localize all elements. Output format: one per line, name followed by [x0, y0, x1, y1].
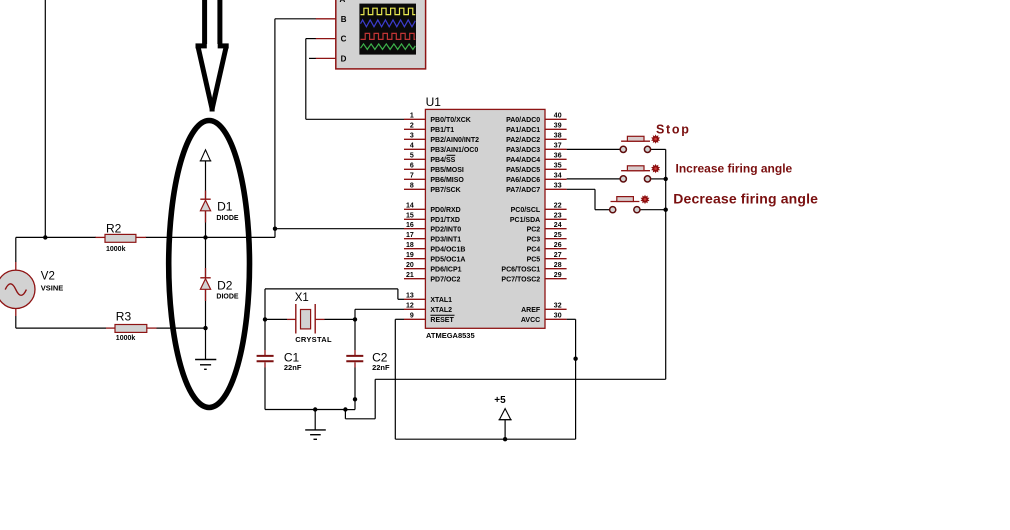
diode D1 anode pin [205, 211, 207, 223]
junction node on AVCC drop [573, 357, 577, 361]
svg-text:PB2/AIN0/INT2: PB2/AIN0/INT2 [430, 137, 479, 144]
crystal X1 right pin [315, 318, 324, 320]
svg-text:CRYSTAL: CRYSTAL [295, 335, 332, 344]
annotation arrow pointing to diodes [196, 0, 229, 112]
svg-text:3: 3 [410, 133, 414, 140]
svg-text:27: 27 [554, 252, 562, 259]
U1 pin 12 XTAL2 [404, 308, 425, 310]
wire buttons-to-ground link horizontal [345, 418, 375, 420]
svg-text:PD1/TXD: PD1/TXD [430, 217, 460, 224]
resistor R3 body [115, 325, 147, 333]
svg-text:38: 38 [554, 133, 562, 140]
resistor R3 right pin [147, 327, 157, 329]
wire left vertical below C1 to ground row [264, 368, 266, 410]
svg-text:19: 19 [406, 252, 414, 259]
svg-text:PB5/MOSI: PB5/MOSI [430, 167, 464, 174]
U1 pin 21 PD7/OC2 [404, 278, 425, 280]
U1 pin 29 PC7/TOSC2 [545, 278, 567, 280]
svg-text:PC5: PC5 [527, 256, 541, 263]
wire V2 to R3 [16, 327, 106, 329]
button Stop cap [627, 136, 644, 141]
svg-text:32: 32 [554, 303, 562, 310]
svg-text:40: 40 [554, 113, 562, 120]
svg-text:PB1/T1: PB1/T1 [430, 127, 454, 134]
svg-text:20: 20 [406, 262, 414, 269]
svg-text:21: 21 [406, 272, 414, 279]
wire buttons-to-ground link up [374, 379, 376, 419]
wire R2 to diode chain and right [146, 236, 276, 238]
svg-text:ATMEGA8535: ATMEGA8535 [426, 331, 475, 340]
oscilloscope trace A yellow square wave [361, 8, 416, 14]
svg-text:PD7/OC2: PD7/OC2 [430, 276, 460, 283]
svg-text:17: 17 [406, 232, 414, 239]
resistor R3 left pin [106, 327, 115, 329]
svg-text:33: 33 [554, 183, 562, 190]
svg-text:Increase firing angle: Increase firing angle [676, 162, 793, 176]
wire diode chain D1 anode to junction [205, 211, 207, 238]
U1 pin 8 PB7/SCK [404, 188, 425, 190]
U1 pin 23 PC1/SDA [545, 218, 567, 220]
svg-text:XTAL2: XTAL2 [430, 307, 452, 314]
svg-text:1000k: 1000k [116, 335, 136, 342]
wire RESET horizontal [395, 318, 404, 320]
source V2 top pin [15, 262, 17, 271]
svg-text:18: 18 [406, 242, 414, 249]
svg-text:24: 24 [554, 222, 562, 229]
svg-text:13: 13 [406, 293, 414, 300]
svg-text:2: 2 [410, 123, 414, 130]
junction node crystal right / XTAL2 [353, 317, 357, 321]
wire diode chain D2 anode to R3 node [205, 289, 207, 328]
wire scope C channel horizontal [306, 38, 316, 40]
svg-text:PA2/ADC2: PA2/ADC2 [506, 137, 540, 144]
svg-text:PD2/INT0: PD2/INT0 [430, 226, 461, 233]
oscilloscope trace C red square wave [361, 33, 416, 39]
svg-text:1000k: 1000k [106, 246, 126, 253]
svg-text:XTAL1: XTAL1 [430, 297, 452, 304]
ground under diode chain [195, 359, 216, 361]
wire junction to U1 pin 16 PD2/INT0 [275, 228, 404, 230]
button Decrease cap [617, 197, 634, 202]
wire XTAL1 top run to crystal left node [265, 288, 398, 290]
svg-text:PC4: PC4 [527, 246, 541, 253]
svg-text:PA1/ADC1: PA1/ADC1 [506, 127, 540, 134]
svg-text:15: 15 [406, 213, 414, 220]
svg-text:PD5/OC1A: PD5/OC1A [430, 256, 465, 263]
U1 pin 13 XTAL1 [404, 298, 425, 300]
U1 pin 35 PA5/ADC5 [545, 168, 567, 170]
svg-text:PC6/TOSC1: PC6/TOSC1 [501, 266, 540, 273]
capacitor C1 bottom pin [264, 362, 266, 367]
svg-text:PB6/MISO: PB6/MISO [430, 177, 464, 184]
button Decrease contact bar [611, 201, 640, 203]
capacitor C1 plates [257, 355, 274, 357]
button Increase cap [627, 166, 644, 171]
junction node A-wire / R2 row [43, 235, 47, 239]
crystal X1 left pin [287, 318, 296, 320]
svg-text:PB4/SS: PB4/SS [430, 157, 455, 164]
wire XTAL1 horizontal [398, 298, 404, 300]
svg-text:VSINE: VSINE [41, 283, 64, 292]
crystal X1 left plate [295, 304, 297, 334]
junction node diode chain / R3 row [203, 326, 207, 330]
svg-text:28: 28 [554, 262, 562, 269]
U1 pin 9 RESET [404, 318, 425, 320]
wire corner up to pin16 node [274, 229, 276, 238]
capacitor C2 bottom pin [354, 362, 356, 367]
svg-text:D2: D2 [217, 278, 233, 292]
svg-text:5: 5 [410, 153, 414, 160]
wire terminal to D1 cathode [205, 161, 207, 199]
capacitor C2 plates [346, 355, 363, 357]
wire buttons-to-ground link down [344, 410, 346, 419]
svg-text:PA4/ADC4: PA4/ADC4 [506, 157, 540, 164]
wire diode chain junction to D2 cathode [205, 237, 207, 277]
oscilloscope pin D [316, 57, 336, 59]
svg-text:R2: R2 [106, 221, 122, 235]
U1 pin 24 PC2 [545, 228, 567, 230]
junction node bus / Decrease button [664, 208, 668, 212]
wire RESET vertical down [394, 319, 396, 439]
U1 pin 37 PA3/ADC3 [545, 148, 567, 150]
svg-text:PD6/ICP1: PD6/ICP1 [430, 266, 461, 273]
svg-text:PA7/ADC7: PA7/ADC7 [506, 187, 540, 194]
wire +5 terminal stem [504, 420, 506, 440]
svg-text:Decrease firing angle: Decrease firing angle [673, 191, 818, 207]
U1 pin 4 PB3/AIN1/OC0 [404, 148, 425, 150]
wire scope channel A vertical [44, 0, 46, 238]
U1 pin 20 PD6/ICP1 [404, 268, 425, 270]
oscilloscope pin B [316, 18, 336, 20]
oscilloscope pin C [316, 38, 336, 40]
wire V2 top lead [15, 237, 17, 262]
button Increase right terminal [644, 176, 650, 182]
svg-text:30: 30 [554, 313, 562, 320]
svg-text:23: 23 [554, 213, 562, 220]
button Decrease right terminal [634, 207, 640, 213]
wire crystal left lead run [265, 318, 287, 320]
svg-text:DIODE: DIODE [216, 215, 239, 222]
svg-text:V2: V2 [41, 270, 55, 282]
svg-text:U1: U1 [426, 95, 442, 109]
svg-text:14: 14 [406, 203, 414, 210]
wire U1 pin 33 horizontal [567, 188, 595, 190]
wire node R2 row left (V2 top to R2) [16, 236, 96, 238]
wire button bus vertical [665, 149, 667, 379]
ground under crystal [305, 429, 326, 431]
annotation ellipse around diodes [169, 121, 250, 408]
U1 pin 17 PD3/INT1 [404, 238, 425, 240]
svg-text:7: 7 [410, 173, 414, 180]
source V2 bottom pin [15, 308, 17, 316]
svg-text:Stop: Stop [656, 123, 691, 137]
U1 pin 26 PC4 [545, 248, 567, 250]
button Increase contact bar [621, 170, 650, 172]
U1 pin 5 PB4/SS [404, 158, 425, 160]
terminal arrow above D1 [201, 150, 211, 161]
svg-text:PA5/ADC5: PA5/ADC5 [506, 167, 540, 174]
wire Increase button to bus [651, 178, 666, 180]
U1 pin 2 PB1/T1 [404, 128, 425, 130]
button Decrease actuator star [641, 195, 650, 204]
button Stop right terminal [644, 146, 650, 152]
oscilloscope screen [359, 4, 416, 55]
U1 pin 15 PD1/TXD [404, 218, 425, 220]
wire left vertical crystal/C1 branch upper [264, 289, 266, 350]
oscilloscope body [336, 0, 426, 69]
button Stop actuator star [651, 134, 660, 143]
svg-text:36: 36 [554, 153, 562, 160]
U1 pin 38 PA2/ADC2 [545, 138, 567, 140]
svg-text:PB7/SCK: PB7/SCK [430, 187, 460, 194]
junction node below C2 [353, 397, 357, 401]
wire scope B channel horizontal [275, 18, 316, 20]
junction node +5 on rail [503, 437, 507, 441]
resistor R2 right pin [136, 236, 146, 238]
diode D2 cathode pin [205, 268, 207, 278]
wire Decrease button to bus [640, 209, 666, 211]
svg-text:22nF: 22nF [284, 363, 302, 372]
U1 pin 36 PA4/ADC4 [545, 158, 567, 160]
svg-text:12: 12 [406, 303, 414, 310]
U1 pin 16 PD2/INT0 [404, 228, 425, 230]
U1 pin 1 PB0/T0/XCK [404, 118, 425, 120]
svg-text:4: 4 [410, 143, 414, 150]
svg-text:26: 26 [554, 242, 562, 249]
svg-text:X1: X1 [295, 292, 309, 304]
wire button bus bottom rail [375, 378, 666, 380]
svg-text:C: C [341, 35, 347, 44]
resistor R2 left pin [96, 236, 106, 238]
wire V2 bottom lead [15, 316, 17, 328]
svg-text:R3: R3 [116, 310, 132, 324]
U1 pin 14 PD0/RXD [404, 208, 425, 210]
svg-text:PA0/ADC0: PA0/ADC0 [506, 117, 540, 124]
capacitor C2 top pin [354, 350, 356, 355]
button Stop contact bar [621, 140, 650, 142]
U1 pin 7 PB6/MISO [404, 178, 425, 180]
svg-text:39: 39 [554, 123, 562, 130]
svg-text:DIODE: DIODE [216, 293, 239, 300]
wire diode chain to ground [205, 328, 207, 359]
button Decrease left terminal [610, 207, 616, 213]
svg-text:22: 22 [554, 203, 562, 210]
svg-text:PA3/ADC3: PA3/ADC3 [506, 147, 540, 154]
wire ground row under crystal [265, 409, 345, 411]
wire scope C channel vertical [305, 39, 307, 120]
svg-text:AVCC: AVCC [521, 317, 540, 324]
svg-text:PB0/T0/XCK: PB0/T0/XCK [430, 117, 470, 124]
wire XTAL2 vertical to crystal right node [354, 309, 356, 350]
U1 pin 32 AREF [545, 308, 567, 310]
svg-text:1: 1 [410, 113, 414, 120]
crystal X1 body [301, 310, 311, 329]
U1 pin 39 PA1/ADC1 [545, 128, 567, 130]
wire XTAL2 horizontal [355, 308, 404, 310]
wire +5 supply rail [395, 438, 575, 440]
capacitor C1 top pin [264, 350, 266, 355]
oscilloscope trace D green wave [361, 44, 416, 50]
svg-text:PC7/TOSC2: PC7/TOSC2 [501, 276, 540, 283]
U1 pin 30 AVCC [545, 318, 567, 320]
svg-text:RESET: RESET [430, 317, 454, 324]
svg-text:PD0/RXD: PD0/RXD [430, 207, 460, 214]
svg-text:PC1/SDA: PC1/SDA [510, 217, 540, 224]
svg-text:PD3/INT1: PD3/INT1 [430, 236, 461, 243]
wire Stop button to bus [651, 148, 666, 150]
crystal X1 right plate [314, 304, 316, 334]
wire pin 33 corner down [594, 189, 596, 209]
svg-text:37: 37 [554, 143, 562, 150]
wire U1 pin 37 to Stop button [567, 148, 621, 150]
junction node diode chain / R2 row [203, 235, 207, 239]
wire C2 bottom corner to ground junction [345, 409, 355, 411]
diode D2 cathode bar [200, 277, 210, 279]
U1 pin 18 PD4/OC1B [404, 248, 425, 250]
wire below C2 to junction [354, 368, 356, 410]
button Stop left terminal [620, 146, 626, 152]
junction node ground row right [343, 407, 347, 411]
junction node ground tap [313, 407, 317, 411]
U1 pin 22 PC0/SCL [545, 208, 567, 210]
svg-text:34: 34 [554, 173, 562, 180]
wire AVCC vertical down [575, 319, 577, 439]
U1 pin 3 PB2/AIN0/INT2 [404, 138, 425, 140]
wire C channel to U1 pin 1 PB0 [306, 118, 404, 120]
svg-text:A: A [340, 0, 346, 4]
diode D1 triangle [200, 200, 210, 211]
U1 pin 6 PB5/MOSI [404, 168, 425, 170]
junction node pin16 / scope B [273, 227, 277, 231]
U1 pin 25 PC3 [545, 238, 567, 240]
wire AVCC horizontal [567, 318, 576, 320]
svg-text:25: 25 [554, 232, 562, 239]
svg-text:PC2: PC2 [527, 226, 541, 233]
diode D2 anode pin [205, 289, 207, 301]
junction node bus / Increase button [664, 177, 668, 181]
wire R3 to diode chain [156, 327, 205, 329]
wire U1 pin 34 to Increase button [567, 178, 621, 180]
U1 pin 34 PA6/ADC6 [545, 178, 567, 180]
wire XTAL1 corner vertical [397, 289, 399, 299]
svg-text:PC3: PC3 [527, 236, 541, 243]
wire to Decrease button [595, 209, 610, 211]
svg-text:6: 6 [410, 163, 414, 170]
source V2 sine symbol [5, 284, 26, 296]
svg-text:PC0/SCL: PC0/SCL [511, 207, 541, 214]
svg-text:22nF: 22nF [372, 363, 390, 372]
power terminal +5 [499, 409, 510, 420]
svg-text:PA6/ADC6: PA6/ADC6 [506, 177, 540, 184]
svg-text:AREF: AREF [521, 307, 541, 314]
button Increase left terminal [620, 176, 626, 182]
wire scope B channel vertical down to pin16 node [274, 19, 276, 229]
oscilloscope trace B blue wave [361, 20, 416, 27]
resistor R2 body [105, 234, 136, 242]
svg-text:8: 8 [410, 183, 414, 190]
wire ground stem crystal [314, 410, 316, 430]
svg-text:35: 35 [554, 163, 562, 170]
diode D2 triangle [200, 279, 210, 290]
U1 pin 27 PC5 [545, 258, 567, 260]
wire scope D channel stub [309, 57, 316, 59]
svg-text:PD4/OC1B: PD4/OC1B [430, 246, 465, 253]
wire crystal right lead run [325, 318, 356, 320]
U1 pin 40 PA0/ADC0 [545, 118, 567, 120]
svg-text:PB3/AIN1/OC0: PB3/AIN1/OC0 [430, 147, 478, 154]
diode D1 cathode bar [200, 198, 210, 200]
source V2 VSINE body [0, 270, 35, 308]
svg-text:29: 29 [554, 272, 562, 279]
svg-text:D: D [341, 55, 347, 64]
microcontroller U1 ATMEGA8535 body [425, 109, 545, 328]
svg-text:B: B [341, 15, 347, 24]
U1 pin 28 PC6/TOSC1 [545, 268, 567, 270]
svg-text:16: 16 [406, 222, 414, 229]
svg-text:D1: D1 [217, 200, 233, 214]
svg-text:+5: +5 [494, 395, 506, 406]
diode D1 cathode pin [205, 191, 207, 200]
junction node crystal left [263, 317, 267, 321]
U1 pin 33 PA7/ADC7 [545, 188, 567, 190]
U1 pin 19 PD5/OC1A [404, 258, 425, 260]
svg-text:9: 9 [410, 313, 414, 320]
button Increase actuator star [651, 164, 660, 173]
